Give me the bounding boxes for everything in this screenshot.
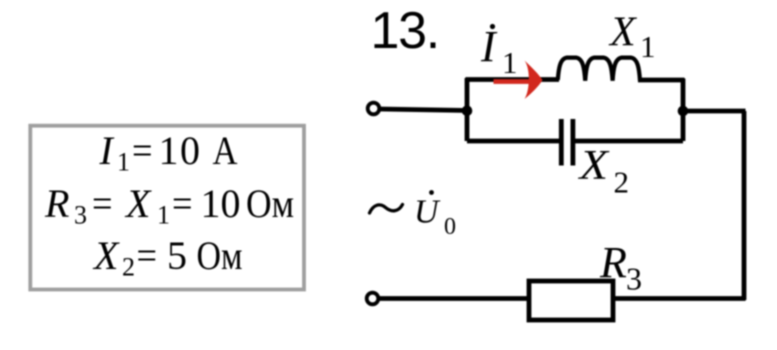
wire: top branch left segment — [466, 77, 560, 82]
svg-text:=: = — [137, 233, 158, 278]
capacitor X2 plates — [559, 119, 564, 166]
svg-text:А: А — [213, 128, 238, 173]
svg-text:X: X — [92, 233, 120, 278]
svg-text:0: 0 — [444, 214, 456, 240]
node: left junction dot — [462, 106, 473, 117]
wire: top terminal to left junction — [379, 109, 468, 111]
wire: bottom rail left of resistor — [379, 296, 529, 301]
svg-text:1: 1 — [502, 45, 518, 80]
svg-text:3: 3 — [626, 261, 642, 297]
label X2 (capacitor) — [577, 142, 629, 200]
resistor R3 — [529, 281, 613, 320]
wire: right rail vertical — [742, 111, 747, 300]
svg-text:I: I — [99, 128, 115, 173]
svg-text:10: 10 — [159, 128, 202, 173]
svg-text:I: I — [480, 22, 498, 71]
svg-text:X: X — [124, 181, 152, 226]
terminal: top input — [368, 103, 380, 115]
svg-text:13.: 13. — [371, 2, 439, 60]
svg-text:1: 1 — [117, 148, 130, 177]
wire: bottom branch right segment — [575, 139, 684, 144]
label I1 (current) — [480, 22, 518, 80]
svg-text:=: = — [132, 128, 153, 173]
value label I1 = 10 A (line 1) — [99, 128, 238, 177]
label U0 (source voltage) — [414, 190, 456, 240]
current arrow I1 (red) — [494, 61, 543, 100]
svg-text:1: 1 — [157, 201, 170, 230]
svg-text:=: = — [172, 181, 193, 226]
svg-text:=: = — [92, 181, 113, 226]
wire: left vertical of parallel branch — [465, 78, 470, 141]
svg-text:3: 3 — [74, 201, 87, 230]
wire: bottom rail right of resistor — [612, 296, 746, 301]
label R3 (resistor) — [599, 238, 642, 297]
given-data box — [30, 126, 304, 290]
svg-text:R: R — [599, 238, 627, 287]
svg-text:R: R — [44, 181, 69, 226]
svg-text:Ом: Ом — [246, 181, 294, 226]
node: right junction dot — [678, 106, 689, 117]
inductor X1 — [558, 58, 640, 81]
wire: right vertical of parallel branch — [681, 79, 686, 142]
svg-text:X: X — [577, 142, 610, 189]
value label X2 = 5 Om (line 3) — [92, 233, 243, 282]
svg-text:10: 10 — [201, 181, 241, 226]
svg-text:2: 2 — [614, 165, 630, 200]
svg-text:U: U — [414, 194, 441, 231]
wire: right junction to right rail — [683, 109, 746, 114]
svg-text:1: 1 — [640, 29, 656, 64]
terminal: bottom input — [367, 293, 379, 305]
value label R3 = X1 = 10 Om (line 2) — [44, 181, 294, 230]
svg-text:2: 2 — [122, 253, 135, 282]
source ac tilde — [370, 205, 403, 214]
svg-text:X: X — [608, 10, 638, 56]
svg-text:5: 5 — [167, 233, 187, 278]
wire: top branch right segment — [638, 78, 685, 83]
label X1 (inductor) — [608, 10, 656, 65]
wire: bottom branch left segment — [467, 139, 560, 144]
svg-text:Ом: Ом — [197, 233, 243, 278]
